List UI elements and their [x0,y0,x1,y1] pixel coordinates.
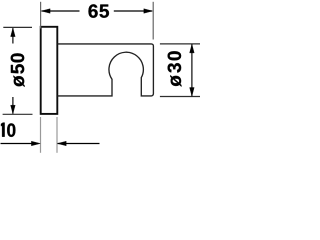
wall plate (side view) [41,27,58,114]
dim ø50: top tick [3,26,32,28]
dim 10: right extension line [56,117,58,153]
dim 10: right line with left-pointing arrowhead [58,143,100,145]
dim 10: label [1,123,5,137]
dim 10: left extension line [40,117,42,153]
dim 65: dimension line right segment [114,10,152,12]
dim 65: right arrowhead [144,9,153,14]
dim ø30: bottom tick [160,96,200,98]
dim ø30: top tick [160,43,200,45]
holder body with keyhole cutout (side view) [57,44,153,96]
dim 65: label [89,4,109,17]
dim 65: left arrowhead [41,9,50,14]
dim ø50: bottom tick [3,113,33,115]
dim ø30: label [168,51,182,86]
dim 10: left line with right-pointing arrowhead [1,143,39,145]
dim ø50: down arrowhead [11,105,16,114]
dim ø50: label [11,53,25,87]
dim 65: dimension line left segment [42,10,80,12]
dim ø30: dimension line [191,44,193,96]
dim ø50: up arrowhead [11,28,16,37]
dim ø30: down arrowhead [190,88,195,97]
dim 65: left extension line [40,2,42,29]
dim 65: right extension line [152,2,154,40]
dim ø30: up arrowhead [190,44,195,53]
dim ø50: dimension line lower segment [12,97,14,114]
dim ø50: dimension line upper segment [12,28,14,43]
